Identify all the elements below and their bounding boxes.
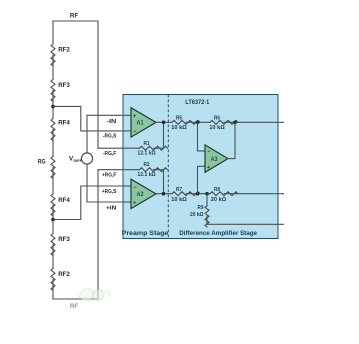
node: A2 output / R2 junction (162, 192, 166, 196)
svg-text:20 kΩ: 20 kΩ (190, 212, 204, 218)
wire: A3 output feedback to R6 node (228, 122, 235, 158)
svg-text:RF3: RF3 (58, 82, 70, 89)
node: R6/A3 output junction (233, 121, 237, 125)
svg-text:A2: A2 (137, 192, 145, 198)
stage separator (dashed) (167, 95, 169, 239)
resistor R2 12.1k feedback (123, 162, 168, 194)
node: R9 junction (205, 192, 209, 196)
svg-text:−: − (133, 129, 136, 135)
resistor R5 10k (171, 115, 200, 131)
svg-text:+RG,S: +RG,S (102, 189, 117, 195)
svg-text:R5: R5 (176, 115, 183, 121)
node: lower tap junction (51, 218, 55, 222)
wire: +RG,S pin into A2 - input (123, 185, 131, 187)
pin label -IN (107, 119, 117, 125)
svg-text:-IN: -IN (107, 119, 117, 125)
pin label +RG,F (102, 173, 117, 179)
resistor R7 10k (171, 187, 200, 203)
svg-text:10 kΩ: 10 kΩ (209, 125, 225, 131)
op-amp IC block LT6372-1 (123, 95, 278, 239)
label Difference Amplifier Stage (179, 230, 257, 237)
svg-text:+IN: +IN (106, 206, 116, 212)
wire: VDIFF top lead to -IN pin (87, 115, 123, 153)
label RF (top) (70, 12, 78, 19)
wire: upper tap to -RG,S pin (53, 106, 123, 130)
wire: A2 output rail (156, 193, 284, 195)
svg-text:+: + (207, 165, 210, 171)
resistor RG (38, 157, 55, 179)
svg-text:12.1 kΩ: 12.1 kΩ (137, 172, 156, 178)
wire: +RG,F pin lead (98, 169, 123, 171)
svg-text:A3: A3 (211, 157, 219, 163)
svg-text:RF2: RF2 (58, 271, 70, 278)
resistor RF3 (51, 80, 70, 102)
svg-text:−: − (133, 185, 136, 191)
svg-text:A1: A1 (137, 121, 145, 127)
label Preamp Stage (122, 230, 169, 237)
svg-text:+: + (133, 201, 136, 207)
svg-text:RF3: RF3 (58, 236, 70, 243)
op-amp A2 (131, 179, 156, 208)
resistor RF4 (51, 119, 70, 141)
wire: -IN pin into A1 + input (123, 114, 131, 116)
resistor R1 12.1k feedback (123, 122, 168, 156)
resistor R8 20k (210, 187, 238, 203)
wire: A1 output rail (156, 121, 284, 123)
wire: top RF feedback wire (53, 21, 98, 148)
svg-text:R6: R6 (214, 115, 221, 121)
svg-text:R7: R7 (176, 187, 182, 193)
pin label -RG,F (103, 151, 117, 157)
svg-text:R2: R2 (144, 162, 150, 168)
svg-text:DIFF: DIFF (73, 158, 82, 163)
svg-text:-RG,S: -RG,S (103, 134, 117, 140)
pin label +IN (106, 206, 116, 212)
(decorative) (79, 289, 110, 301)
svg-text:10 kΩ: 10 kΩ (171, 197, 187, 203)
wire: VDIFF bottom lead to +IN pin (87, 164, 123, 202)
svg-text:20 kΩ: 20 kΩ (211, 197, 227, 203)
resistor RF3 (51, 234, 70, 256)
wire: lower tap to +RG,S pin (53, 186, 123, 220)
svg-text:RG: RG (38, 158, 46, 165)
op-amp A1 (131, 108, 156, 137)
resistor R9 20k to output rail (190, 194, 284, 227)
svg-text:RF4: RF4 (58, 197, 70, 204)
wire: A3 + input from R7/R8 node (198, 166, 206, 193)
wire: left resistor-string vertical (52, 21, 54, 299)
pin label -RG,S (103, 134, 117, 140)
voltage source VDIFF (69, 153, 93, 164)
resistor R6 10k (209, 115, 238, 131)
resistor RF2 (51, 44, 70, 66)
svg-text:12.1 kΩ: 12.1 kΩ (137, 151, 156, 157)
svg-text:+RG,F: +RG,F (102, 173, 117, 179)
resistor RF2 (51, 269, 70, 291)
label LT6372-1 (185, 100, 210, 106)
svg-text:Difference Amplifier Stage: Difference Amplifier Stage (179, 230, 257, 237)
svg-text:RF2: RF2 (58, 47, 70, 54)
svg-text:LT6372-1: LT6372-1 (185, 100, 210, 106)
svg-text:Preamp Stage: Preamp Stage (122, 230, 169, 237)
op-amp A3 (205, 145, 228, 172)
node: A1 output / R1 junction (162, 121, 166, 125)
svg-text:RF4: RF4 (58, 120, 70, 127)
wire: +IN pin into A2 + input (123, 201, 131, 203)
svg-text:10 kΩ: 10 kΩ (171, 125, 187, 131)
svg-text:R1: R1 (144, 141, 151, 147)
label RF (bottom, faded) (70, 303, 78, 310)
svg-text:-RG,F: -RG,F (103, 151, 117, 157)
pin label +RG,S (102, 189, 117, 195)
svg-text:R9: R9 (198, 205, 205, 211)
svg-text:+: + (133, 114, 136, 120)
node: R5/R6 junction to A3 - input (196, 121, 200, 125)
wire: A3 - input from R5/R6 node (198, 122, 206, 151)
svg-text:RF: RF (70, 303, 78, 310)
wire: bottom RF feedback wire (53, 170, 98, 299)
wire: -RG,S pin into A1 - input (123, 130, 131, 132)
svg-text:R8: R8 (214, 187, 221, 193)
node: upper tap junction (51, 105, 55, 109)
node: R7 junction to A3 + input (196, 192, 200, 196)
resistor RF4 (51, 194, 70, 216)
wire: -RG,F pin lead (98, 147, 123, 149)
svg-text:−: − (207, 149, 210, 155)
svg-text:RF: RF (70, 12, 78, 19)
